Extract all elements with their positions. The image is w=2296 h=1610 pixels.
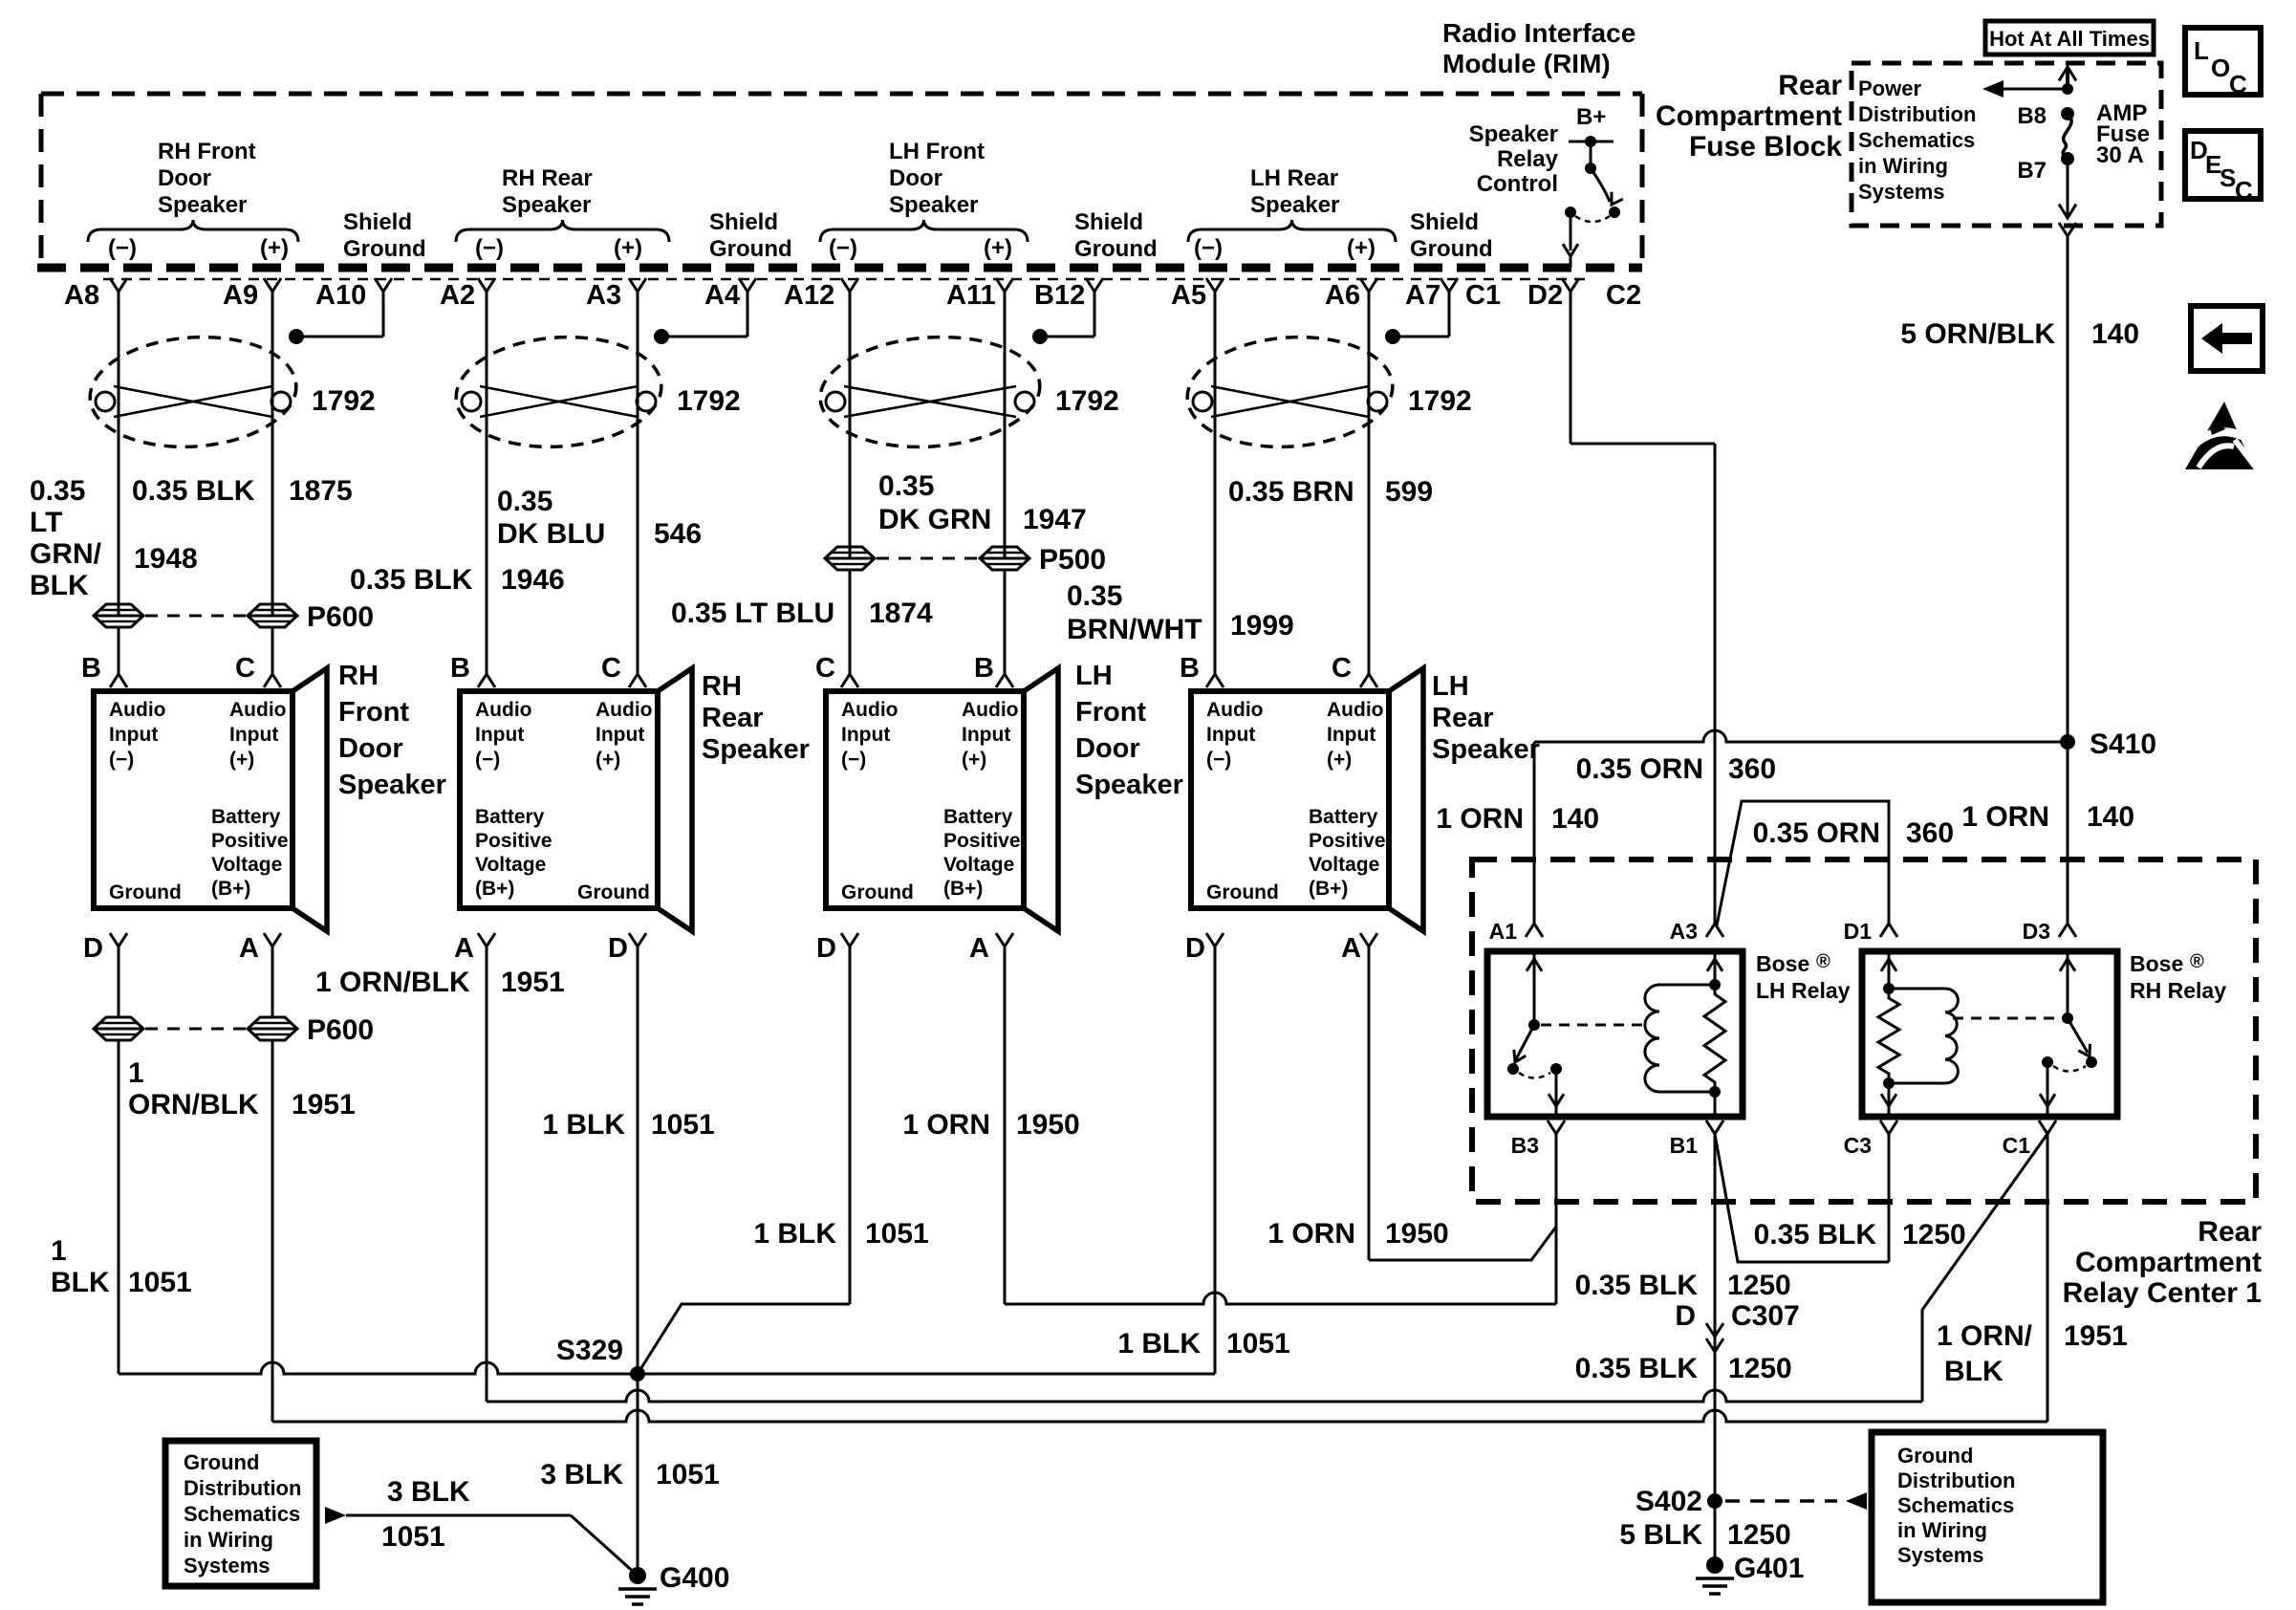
svg-text:B8: B8 bbox=[2017, 103, 2047, 129]
svg-text:D: D bbox=[83, 933, 103, 964]
svg-text:P500: P500 bbox=[1039, 544, 1106, 576]
svg-text:Module (RIM): Module (RIM) bbox=[1442, 49, 1611, 78]
svg-text:140: 140 bbox=[1551, 803, 1599, 835]
svg-text:Door: Door bbox=[158, 165, 211, 191]
svg-text:1792: 1792 bbox=[312, 385, 376, 417]
svg-text:1051: 1051 bbox=[381, 1521, 445, 1553]
svg-text:in Wiring: in Wiring bbox=[1897, 1518, 1987, 1542]
svg-text:1950: 1950 bbox=[1016, 1109, 1080, 1141]
svg-text:1 BLK: 1 BLK bbox=[753, 1218, 836, 1250]
svg-text:Input: Input bbox=[841, 724, 890, 746]
svg-text:Voltage: Voltage bbox=[475, 854, 546, 876]
svg-text:LT: LT bbox=[30, 507, 62, 538]
svg-text:1792: 1792 bbox=[1055, 385, 1119, 417]
svg-text:B+: B+ bbox=[1576, 104, 1606, 130]
svg-text:Compartment: Compartment bbox=[1656, 100, 1842, 132]
svg-text:®: ® bbox=[2190, 951, 2204, 972]
svg-text:(+): (+) bbox=[614, 235, 642, 261]
svg-text:(+): (+) bbox=[596, 749, 620, 771]
svg-text:Battery: Battery bbox=[1309, 806, 1378, 828]
svg-text:Bose: Bose bbox=[1756, 951, 1809, 976]
svg-text:Input: Input bbox=[475, 724, 524, 746]
svg-text:Ground: Ground bbox=[841, 881, 914, 903]
svg-text:1051: 1051 bbox=[1226, 1328, 1290, 1360]
svg-text:(−): (−) bbox=[475, 749, 500, 771]
svg-text:360: 360 bbox=[1728, 753, 1776, 785]
svg-text:1951: 1951 bbox=[292, 1089, 356, 1120]
svg-text:Shield: Shield bbox=[1410, 209, 1479, 235]
svg-text:A12: A12 bbox=[784, 280, 834, 311]
svg-text:1950: 1950 bbox=[1385, 1218, 1449, 1250]
svg-text:(B+): (B+) bbox=[943, 878, 983, 900]
svg-text:BRN/WHT: BRN/WHT bbox=[1067, 614, 1202, 645]
svg-text:Schematics: Schematics bbox=[1858, 128, 1975, 152]
svg-text:Positive: Positive bbox=[1309, 830, 1386, 852]
svg-text:Speaker: Speaker bbox=[1469, 121, 1558, 147]
svg-text:RH: RH bbox=[338, 661, 379, 691]
svg-text:Ground: Ground bbox=[1897, 1444, 1973, 1468]
svg-text:B: B bbox=[1180, 653, 1200, 684]
svg-text:546: 546 bbox=[654, 518, 702, 550]
svg-text:0.35 BLK: 0.35 BLK bbox=[350, 564, 473, 596]
svg-text:Audio: Audio bbox=[596, 699, 652, 721]
svg-text:C2: C2 bbox=[1606, 280, 1641, 311]
svg-text:0.35 ORN: 0.35 ORN bbox=[1576, 753, 1703, 785]
svg-text:D: D bbox=[1185, 933, 1205, 964]
svg-text:Speaker: Speaker bbox=[702, 734, 810, 765]
svg-text:1 ORN/BLK: 1 ORN/BLK bbox=[315, 967, 470, 998]
svg-text:Systems: Systems bbox=[184, 1554, 271, 1577]
svg-text:Speaker: Speaker bbox=[338, 770, 446, 800]
svg-text:0.35 BRN: 0.35 BRN bbox=[1228, 476, 1354, 508]
svg-text:Door: Door bbox=[889, 165, 942, 191]
svg-text:(+): (+) bbox=[229, 749, 254, 771]
svg-text:360: 360 bbox=[1906, 817, 1954, 849]
svg-text:Input: Input bbox=[962, 724, 1010, 746]
svg-text:0.35 BLK: 0.35 BLK bbox=[132, 475, 255, 507]
svg-text:LH Relay: LH Relay bbox=[1756, 978, 1851, 1003]
svg-text:Systems: Systems bbox=[1858, 180, 1945, 204]
svg-text:A3: A3 bbox=[586, 280, 621, 311]
svg-text:1 ORN: 1 ORN bbox=[1267, 1218, 1355, 1250]
svg-text:LH Front: LH Front bbox=[889, 139, 985, 164]
svg-text:(B+): (B+) bbox=[211, 878, 250, 900]
svg-text:140: 140 bbox=[2087, 801, 2134, 833]
svg-text:D1: D1 bbox=[1844, 919, 1873, 944]
svg-text:Input: Input bbox=[1206, 724, 1255, 746]
svg-text:S: S bbox=[2220, 163, 2236, 192]
svg-text:A3: A3 bbox=[1670, 919, 1698, 944]
svg-text:(+): (+) bbox=[984, 235, 1012, 261]
svg-text:®: ® bbox=[1816, 951, 1830, 972]
svg-text:C3: C3 bbox=[1844, 1133, 1872, 1158]
svg-text:Battery: Battery bbox=[475, 806, 545, 828]
svg-text:B: B bbox=[81, 653, 101, 684]
svg-text:(−): (−) bbox=[109, 749, 134, 771]
svg-text:599: 599 bbox=[1385, 476, 1433, 508]
svg-text:D: D bbox=[608, 933, 628, 964]
svg-text:Speaker: Speaker bbox=[1432, 734, 1540, 765]
svg-text:5 ORN/BLK: 5 ORN/BLK bbox=[1900, 318, 2055, 350]
svg-text:C1: C1 bbox=[2003, 1133, 2031, 1158]
svg-text:Voltage: Voltage bbox=[211, 854, 282, 876]
svg-text:1 ORN: 1 ORN bbox=[902, 1109, 990, 1141]
svg-text:A6: A6 bbox=[1325, 280, 1360, 311]
svg-text:B: B bbox=[450, 653, 470, 684]
svg-text:1948: 1948 bbox=[134, 543, 198, 575]
svg-text:A2: A2 bbox=[440, 280, 475, 311]
svg-text:1 ORN/: 1 ORN/ bbox=[1937, 1320, 2033, 1352]
svg-text:Audio: Audio bbox=[841, 699, 898, 721]
svg-text:Shield: Shield bbox=[1074, 209, 1143, 235]
svg-text:30 A: 30 A bbox=[2096, 142, 2144, 168]
svg-text:Input: Input bbox=[229, 724, 278, 746]
svg-text:1999: 1999 bbox=[1230, 610, 1294, 642]
svg-text:A: A bbox=[1341, 933, 1361, 964]
svg-text:0.35: 0.35 bbox=[878, 470, 934, 502]
svg-text:Audio: Audio bbox=[1327, 699, 1383, 721]
svg-text:Ground: Ground bbox=[1410, 236, 1493, 262]
svg-text:Hot At All Times: Hot At All Times bbox=[1989, 27, 2150, 51]
svg-text:0.35 BLK: 0.35 BLK bbox=[1754, 1219, 1877, 1251]
svg-text:0.35: 0.35 bbox=[1067, 580, 1122, 612]
svg-text:D3: D3 bbox=[2023, 919, 2050, 944]
svg-text:C: C bbox=[2229, 70, 2247, 98]
svg-text:Distribution: Distribution bbox=[184, 1476, 301, 1500]
svg-text:Voltage: Voltage bbox=[1309, 854, 1379, 876]
svg-text:C307: C307 bbox=[1731, 1300, 1800, 1332]
svg-text:C1: C1 bbox=[1465, 280, 1501, 311]
svg-text:5 BLK: 5 BLK bbox=[1619, 1519, 1702, 1551]
svg-text:Distribution: Distribution bbox=[1897, 1469, 2015, 1492]
svg-text:A5: A5 bbox=[1171, 280, 1206, 311]
svg-text:3 BLK: 3 BLK bbox=[540, 1459, 623, 1490]
svg-text:in Wiring: in Wiring bbox=[184, 1528, 273, 1552]
svg-text:0.35: 0.35 bbox=[497, 486, 552, 517]
svg-text:Relay Center 1: Relay Center 1 bbox=[2063, 1277, 2262, 1309]
svg-text:Shield: Shield bbox=[343, 209, 412, 235]
svg-text:S402: S402 bbox=[1635, 1486, 1702, 1517]
svg-text:Schematics: Schematics bbox=[184, 1502, 300, 1526]
svg-text:1250: 1250 bbox=[1728, 1353, 1792, 1384]
svg-text:B: B bbox=[974, 653, 994, 684]
svg-text:0.35 ORN: 0.35 ORN bbox=[1753, 817, 1880, 849]
svg-text:Audio: Audio bbox=[962, 699, 1018, 721]
svg-text:A4: A4 bbox=[704, 280, 740, 311]
svg-text:1: 1 bbox=[128, 1057, 144, 1089]
svg-text:DK GRN: DK GRN bbox=[878, 504, 991, 535]
svg-text:P600: P600 bbox=[307, 1014, 374, 1046]
svg-text:Front: Front bbox=[1075, 697, 1146, 728]
svg-text:Door: Door bbox=[1075, 733, 1140, 764]
svg-text:O: O bbox=[2211, 54, 2230, 82]
svg-text:Speaker: Speaker bbox=[158, 192, 247, 218]
svg-text:C: C bbox=[2235, 176, 2253, 205]
svg-text:RH Relay: RH Relay bbox=[2130, 978, 2226, 1003]
svg-text:ORN/BLK: ORN/BLK bbox=[128, 1089, 259, 1120]
svg-text:1875: 1875 bbox=[289, 475, 353, 507]
svg-text:1874: 1874 bbox=[869, 598, 933, 629]
svg-text:Input: Input bbox=[1327, 724, 1375, 746]
svg-text:G401: G401 bbox=[1734, 1553, 1804, 1584]
svg-text:Voltage: Voltage bbox=[943, 854, 1014, 876]
svg-text:Radio Interface: Radio Interface bbox=[1442, 18, 1635, 48]
svg-text:D: D bbox=[816, 933, 836, 964]
svg-text:B3: B3 bbox=[1511, 1133, 1539, 1158]
svg-text:Speaker: Speaker bbox=[1250, 192, 1339, 218]
svg-text:A11: A11 bbox=[946, 280, 996, 311]
svg-text:B12: B12 bbox=[1034, 280, 1085, 311]
svg-text:1 ORN: 1 ORN bbox=[1436, 803, 1524, 835]
svg-text:1051: 1051 bbox=[865, 1218, 929, 1250]
svg-text:in Wiring: in Wiring bbox=[1858, 154, 1948, 178]
svg-text:GRN/: GRN/ bbox=[30, 538, 102, 570]
svg-text:Ground: Ground bbox=[1074, 236, 1158, 262]
svg-text:A1: A1 bbox=[1489, 919, 1518, 944]
svg-text:1250: 1250 bbox=[1727, 1270, 1791, 1301]
svg-text:0.35 LT BLU: 0.35 LT BLU bbox=[671, 598, 834, 629]
svg-text:(−): (−) bbox=[475, 235, 504, 261]
svg-text:Distribution: Distribution bbox=[1858, 102, 1976, 126]
svg-text:A: A bbox=[969, 933, 989, 964]
svg-text:Audio: Audio bbox=[1206, 699, 1263, 721]
svg-text:1 BLK: 1 BLK bbox=[1117, 1328, 1201, 1360]
svg-text:BLK: BLK bbox=[1944, 1356, 2004, 1387]
svg-text:(B+): (B+) bbox=[475, 878, 514, 900]
svg-text:Ground: Ground bbox=[709, 236, 792, 262]
svg-text:Compartment: Compartment bbox=[2075, 1247, 2262, 1278]
svg-text:Ground: Ground bbox=[343, 236, 426, 262]
svg-text:S410: S410 bbox=[2090, 729, 2156, 760]
svg-text:D: D bbox=[1675, 1300, 1696, 1332]
svg-text:1792: 1792 bbox=[677, 385, 741, 417]
svg-text:Schematics: Schematics bbox=[1897, 1493, 2014, 1517]
svg-text:Door: Door bbox=[338, 733, 403, 764]
svg-text:(B+): (B+) bbox=[1309, 878, 1348, 900]
svg-text:Positive: Positive bbox=[211, 830, 289, 852]
svg-text:A: A bbox=[239, 933, 259, 964]
svg-text:Front: Front bbox=[338, 697, 409, 728]
svg-text:1946: 1946 bbox=[501, 564, 565, 596]
svg-text:RH Rear: RH Rear bbox=[502, 165, 593, 191]
svg-text:Battery: Battery bbox=[211, 806, 281, 828]
svg-text:LH: LH bbox=[1075, 661, 1113, 691]
svg-text:A8: A8 bbox=[64, 280, 99, 311]
svg-text:Rear: Rear bbox=[1432, 703, 1494, 733]
svg-text:1 ORN: 1 ORN bbox=[1961, 801, 2049, 833]
svg-text:Rear: Rear bbox=[2198, 1216, 2262, 1248]
svg-text:C: C bbox=[235, 653, 255, 684]
svg-text:Positive: Positive bbox=[475, 830, 552, 852]
svg-text:(−): (−) bbox=[108, 235, 137, 261]
svg-text:RH Front: RH Front bbox=[158, 139, 256, 164]
svg-text:1 BLK: 1 BLK bbox=[542, 1109, 625, 1141]
svg-text:BLK: BLK bbox=[30, 570, 89, 601]
svg-text:Systems: Systems bbox=[1897, 1543, 1984, 1567]
svg-text:Positive: Positive bbox=[943, 830, 1021, 852]
svg-text:Power: Power bbox=[1858, 76, 1921, 100]
svg-text:1: 1 bbox=[51, 1235, 67, 1267]
svg-text:0.35: 0.35 bbox=[30, 475, 85, 507]
svg-text:G400: G400 bbox=[660, 1562, 729, 1594]
svg-text:L: L bbox=[2194, 36, 2209, 65]
svg-text:Speaker: Speaker bbox=[502, 192, 591, 218]
svg-text:Rear: Rear bbox=[702, 703, 764, 733]
svg-text:LH: LH bbox=[1432, 671, 1469, 702]
svg-text:1250: 1250 bbox=[1902, 1219, 1966, 1251]
svg-text:(−): (−) bbox=[1206, 749, 1231, 771]
svg-text:RH: RH bbox=[702, 671, 742, 702]
svg-text:1051: 1051 bbox=[651, 1109, 715, 1141]
svg-text:Input: Input bbox=[596, 724, 644, 746]
svg-text:C: C bbox=[1332, 653, 1352, 684]
svg-text:Bose: Bose bbox=[2130, 951, 2183, 976]
svg-text:B1: B1 bbox=[1670, 1133, 1699, 1158]
svg-text:Speaker: Speaker bbox=[1075, 770, 1183, 800]
svg-text:P600: P600 bbox=[307, 601, 374, 633]
svg-text:Ground: Ground bbox=[109, 881, 182, 903]
svg-text:S329: S329 bbox=[556, 1335, 623, 1366]
svg-text:Battery: Battery bbox=[943, 806, 1013, 828]
svg-text:0.35 BLK: 0.35 BLK bbox=[1575, 1353, 1699, 1384]
svg-text:A10: A10 bbox=[315, 280, 366, 311]
svg-text:DK BLU: DK BLU bbox=[497, 518, 605, 550]
svg-text:Input: Input bbox=[109, 724, 158, 746]
svg-text:BLK: BLK bbox=[51, 1267, 110, 1298]
svg-text:Fuse Block: Fuse Block bbox=[1689, 131, 1842, 163]
svg-text:1051: 1051 bbox=[128, 1267, 192, 1298]
svg-text:(+): (+) bbox=[260, 235, 289, 261]
svg-text:A7: A7 bbox=[1405, 280, 1440, 311]
svg-text:A: A bbox=[454, 933, 474, 964]
svg-text:1947: 1947 bbox=[1023, 504, 1087, 535]
svg-text:3 BLK: 3 BLK bbox=[387, 1476, 470, 1508]
svg-text:(−): (−) bbox=[1194, 235, 1223, 261]
svg-text:Ground: Ground bbox=[577, 881, 650, 903]
svg-text:Ground: Ground bbox=[1206, 881, 1279, 903]
svg-text:1792: 1792 bbox=[1408, 385, 1472, 417]
svg-text:C: C bbox=[601, 653, 621, 684]
svg-text:(+): (+) bbox=[1347, 235, 1375, 261]
svg-text:C: C bbox=[815, 653, 835, 684]
svg-text:Speaker: Speaker bbox=[889, 192, 978, 218]
svg-text:(−): (−) bbox=[829, 235, 857, 261]
svg-text:1951: 1951 bbox=[2064, 1320, 2128, 1352]
svg-text:Audio: Audio bbox=[109, 699, 165, 721]
svg-text:Audio: Audio bbox=[475, 699, 531, 721]
svg-text:Ground: Ground bbox=[184, 1450, 259, 1474]
svg-text:LH Rear: LH Rear bbox=[1250, 165, 1338, 191]
svg-text:(−): (−) bbox=[841, 749, 866, 771]
svg-text:B7: B7 bbox=[2017, 158, 2047, 184]
svg-text:Audio: Audio bbox=[229, 699, 286, 721]
svg-text:Shield: Shield bbox=[709, 209, 778, 235]
svg-text:1250: 1250 bbox=[1727, 1519, 1791, 1551]
svg-text:Relay: Relay bbox=[1497, 146, 1559, 172]
svg-text:(+): (+) bbox=[1327, 749, 1352, 771]
svg-text:A9: A9 bbox=[223, 280, 258, 311]
svg-text:(+): (+) bbox=[962, 749, 986, 771]
svg-text:140: 140 bbox=[2091, 318, 2139, 350]
svg-text:0.35 BLK: 0.35 BLK bbox=[1575, 1270, 1699, 1301]
svg-text:Control: Control bbox=[1477, 171, 1558, 197]
svg-text:1051: 1051 bbox=[656, 1459, 720, 1490]
svg-text:1951: 1951 bbox=[501, 967, 565, 998]
svg-text:D2: D2 bbox=[1527, 280, 1563, 311]
svg-text:Rear: Rear bbox=[1778, 70, 1842, 101]
